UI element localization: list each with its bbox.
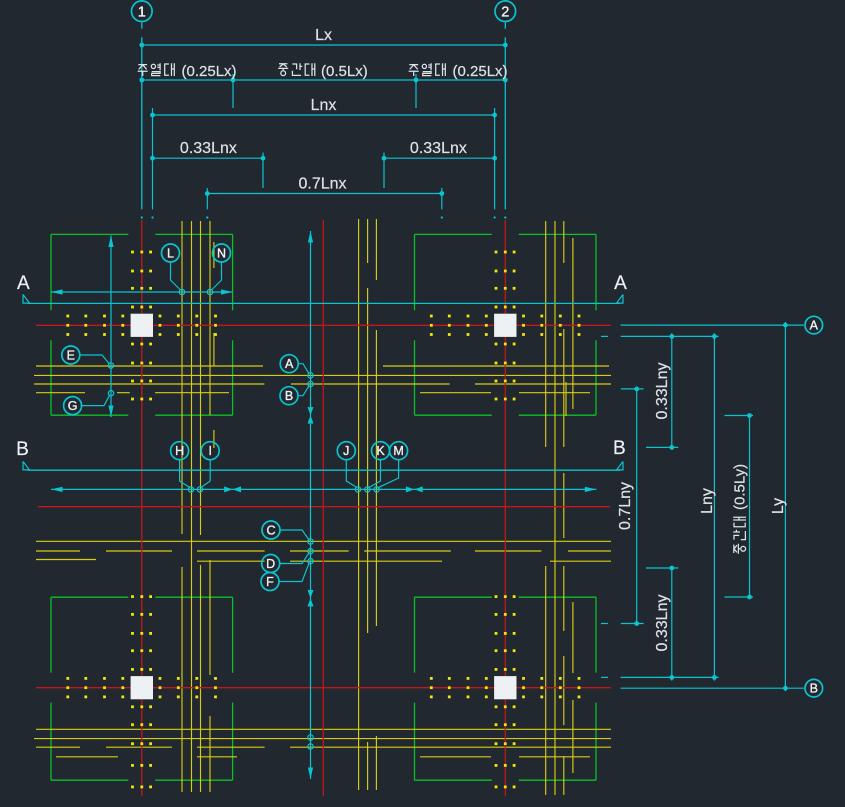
rebar horizontal y=738.6 <box>34 738 611 740</box>
svg-text:0.7Lnx: 0.7Lnx <box>298 176 346 193</box>
rebar horizontal y=561.2 <box>197 560 265 562</box>
svg-text:B: B <box>810 682 818 696</box>
column strip outline top-right top edge <box>415 233 492 235</box>
svg-text:1: 1 <box>138 4 146 20</box>
svg-text:N: N <box>217 247 226 261</box>
svg-text:Ly: Ly <box>770 498 787 514</box>
section bubble A right with dimension line <box>621 324 804 326</box>
callout H <box>180 460 190 488</box>
label middle strip (0.5Lx) <box>278 64 288 76</box>
dimension 0.7Lny <box>636 389 638 624</box>
column strip outline top-right bottom edge <box>415 414 492 416</box>
column strip outline bottom-right top edge <box>415 596 492 598</box>
extension line grid 2 <box>504 22 506 28</box>
svg-text:A: A <box>810 319 819 333</box>
svg-text:D: D <box>266 557 275 571</box>
rebar horizontal y=541.3 <box>36 540 611 542</box>
callout G <box>82 395 110 406</box>
svg-text:(0.5Ly): (0.5Ly) <box>732 464 749 510</box>
svg-text:B: B <box>613 438 626 459</box>
rebar vertical x=376.4 <box>375 219 377 280</box>
section bubble B right with dimension line <box>621 687 804 689</box>
dimension 0.33Lnx right <box>384 157 495 159</box>
svg-text:A: A <box>17 273 30 294</box>
svg-text:(0.25Lx): (0.25Lx) <box>453 63 508 80</box>
rebar section dots around columns <box>66 315 69 318</box>
column strip outline bottom-left bottom edge <box>51 779 128 781</box>
svg-text:Lnx: Lnx <box>311 97 337 114</box>
callout N <box>212 262 222 290</box>
dimension 0.7Lnx <box>207 193 441 195</box>
column strip outline top-right left edge <box>414 234 416 310</box>
column strip outline bottom-left top edge <box>51 596 128 598</box>
rebar horizontal y=729.3 <box>36 728 611 730</box>
callout K <box>368 460 380 488</box>
dimension 0.33Lny bottom <box>671 568 673 681</box>
rebar horizontal y=559.5 <box>36 559 96 561</box>
rebar vertical x=213.9 <box>213 242 215 268</box>
rebar horizontal y=375.4 <box>34 374 611 376</box>
svg-text:0.33Lny: 0.33Lny <box>654 595 671 652</box>
label column strip left (0.25Lx) <box>138 65 148 76</box>
rebar vertical x=200.5 <box>200 221 202 535</box>
dimension Lny <box>713 333 715 680</box>
dimension 0.33Lnx left <box>153 157 264 159</box>
column strip outline bottom-left right edge <box>232 597 234 673</box>
rebar vertical x=563.8 <box>563 221 565 263</box>
dimension Lx <box>142 44 506 46</box>
svg-text:2: 2 <box>501 4 509 20</box>
column strip outline bottom-left left edge <box>50 597 52 673</box>
svg-text:(0.25Lx): (0.25Lx) <box>182 63 237 80</box>
svg-text:Lny: Lny <box>699 488 716 514</box>
callout A <box>298 364 309 375</box>
rebar vertical x=182.0 <box>181 221 183 534</box>
dimension Ly <box>784 322 786 691</box>
svg-text:C: C <box>266 524 275 538</box>
svg-text:Lx: Lx <box>315 27 332 44</box>
rebar vertical x=566.0 <box>565 382 567 416</box>
rebar horizontal y=366.0 <box>36 365 263 367</box>
column strip outline bottom-right right edge <box>595 597 597 673</box>
callout M <box>378 460 399 488</box>
grid line vertical 2 <box>504 220 506 796</box>
callout F <box>279 562 309 581</box>
svg-text:(0.5Lx): (0.5Lx) <box>321 63 368 80</box>
grid line horizontal row A <box>36 324 611 326</box>
svg-text:E: E <box>67 349 75 363</box>
rebar horizontal y=551.0 <box>36 550 80 552</box>
column C4 <box>494 676 516 699</box>
grid bubble 2 <box>495 1 516 22</box>
svg-text:B: B <box>285 389 293 403</box>
svg-text:0.33Lnx: 0.33Lnx <box>180 140 237 157</box>
dimension connector top (Lny) <box>621 335 719 337</box>
callout I <box>201 460 210 488</box>
column strip outline top-left top edge <box>51 233 128 235</box>
svg-text:J: J <box>343 444 349 458</box>
extension snap dots <box>141 216 143 218</box>
column strip outline top-right right edge <box>595 234 597 310</box>
column C3 <box>131 676 153 699</box>
svg-text:B: B <box>16 439 29 460</box>
rebar vertical x=358.6 <box>358 219 360 790</box>
rebar vertical x=555.0 <box>554 221 556 795</box>
svg-text:H: H <box>175 444 184 458</box>
dimension strip widths 0.25Lx / 0.5Lx / 0.25Lx <box>142 79 506 81</box>
vertical bar extent arrow in top-left strip <box>110 236 112 418</box>
grid line vertical mid <box>322 220 324 796</box>
callout B <box>298 385 309 396</box>
svg-text:A: A <box>614 273 627 294</box>
dimension 0.33Lny top <box>671 333 673 447</box>
rebar horizontal y=756.8 <box>56 756 118 758</box>
grid line horizontal mid <box>38 506 610 508</box>
svg-text:M: M <box>393 444 403 458</box>
callout L <box>171 262 181 290</box>
column strip outline top-left left edge <box>50 234 52 310</box>
svg-text:0.33Lny: 0.33Lny <box>654 363 671 420</box>
rebar vertical x=545.7 <box>545 221 547 447</box>
dimension connector bottom (Lny) <box>621 676 719 678</box>
section line B-B <box>28 469 620 471</box>
column strip outline bottom-right bottom edge <box>415 779 492 781</box>
rebar vertical x=367.6 <box>367 219 369 263</box>
svg-text:L: L <box>167 247 174 261</box>
column strip outline top-left bottom edge <box>51 414 128 416</box>
column strip outline top-left right edge <box>232 234 234 310</box>
column strip outline bottom-right left edge <box>414 597 416 673</box>
section line A-A <box>28 302 620 304</box>
rebar vertical x=191.5 <box>191 221 193 792</box>
long vertical bar extent arrow at mid span <box>310 231 312 779</box>
column C2 <box>494 314 516 337</box>
svg-text:G: G <box>68 399 78 413</box>
rebar horizontal y=747.2 <box>36 746 80 748</box>
callout D <box>280 552 310 563</box>
rebar vertical x=572.9 <box>572 238 574 409</box>
label column strip right (0.25Lx) <box>409 65 419 76</box>
callout J <box>346 460 357 488</box>
dimension middle strip (0.5Ly) <box>749 416 751 598</box>
svg-text:I: I <box>208 444 211 458</box>
svg-text:A: A <box>285 357 294 371</box>
column C1 <box>131 314 153 337</box>
callout C <box>280 530 309 540</box>
svg-text:K: K <box>376 444 385 458</box>
snap dashes near plan right edge <box>601 335 608 337</box>
rebar horizontal y=392.7 <box>36 392 85 394</box>
extension line grid 1 <box>141 22 143 28</box>
bar extent arrow row A (top-left strip) <box>51 291 233 293</box>
dimension Lnx <box>153 114 495 116</box>
callout E <box>80 355 110 364</box>
svg-text:0.33Lnx: 0.33Lnx <box>410 140 467 157</box>
grid line vertical 1 <box>141 220 143 796</box>
svg-text:0.7Lny: 0.7Lny <box>617 482 634 530</box>
grid line horizontal row B <box>36 687 611 689</box>
grid bubble 1 <box>132 1 153 22</box>
bar extent arrow chain at section B <box>51 488 596 490</box>
svg-text:F: F <box>266 575 274 589</box>
rebar horizontal y=384.0 <box>34 383 264 385</box>
rebar vertical x=210.0 <box>209 221 211 415</box>
